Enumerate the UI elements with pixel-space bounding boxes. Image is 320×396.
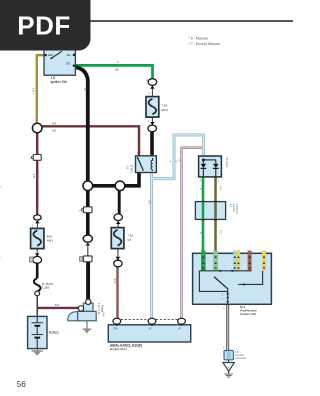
- wire: cyan outline from ST relay pin down to engine ECU: [150, 172, 153, 318]
- wire: yellow from ignition SW AM1 down to junction: [37, 55, 44, 123]
- fusible link FL MAIN: [34, 278, 41, 291]
- connector E8 below AM1 fuse: [36, 249, 38, 254]
- wire: thick black from ignition SW down to junction C1: [76, 67, 88, 183]
- wire: cyan core to engine ECU: [151, 172, 153, 318]
- svg-text:2 B-Y: 2 B-Y: [32, 88, 35, 94]
- wire: cyan outline branch to diode box: [152, 135, 204, 179]
- fuse AM1 40A: [31, 228, 44, 248]
- connector CN3 left column: [29, 155, 41, 161]
- svg-text:ST2: ST2: [148, 200, 151, 205]
- wire: brown from ST fuse connector down to engine ECU STA: [116, 267, 118, 319]
- svg-text:IG2: IG2: [67, 54, 72, 57]
- svg-text:Connector: Connector: [235, 357, 246, 360]
- svg-text:A 1: A 1: [228, 204, 231, 208]
- svg-text:3: 3: [0, 186, 2, 189]
- svg-text:ST1: ST1: [66, 63, 71, 66]
- wire: thick black center column to starter: [86, 262, 90, 299]
- park neutral position SW box: [193, 251, 272, 305]
- wire: cyan core branch to diode box: [152, 135, 204, 179]
- wire: thin black center column: [87, 246, 89, 256]
- fuse EFI 7.5A: [146, 97, 159, 118]
- wire: black from EFI fuse connector to ST relay pin 5: [150, 132, 154, 156]
- svg-text:1: 1: [148, 121, 150, 123]
- wire: dark red from connector down to fuse column: [36, 160, 38, 215]
- svg-text:(W): (W): [52, 130, 56, 133]
- wire: black from AM1 fuse connector to fusible link: [36, 263, 39, 278]
- svg-text:PDF: PDF: [17, 11, 71, 41]
- wire: black center column connector to ellipse: [86, 213, 90, 235]
- junction connector A1: [195, 201, 225, 221]
- svg-text:5 (A): 5 (A): [102, 312, 105, 317]
- svg-text:1: 1: [149, 93, 151, 95]
- connector CN2 center column: [80, 256, 92, 262]
- svg-text:G: G: [199, 188, 201, 190]
- connector E4 below ST fuse: [117, 249, 119, 257]
- connector ellipse E5 center column: [83, 235, 92, 242]
- ground below battery: [36, 349, 38, 351]
- connector ellipse E1 above EFI fuse: [148, 79, 157, 86]
- connector E2 below EFI fuse: [151, 117, 153, 124]
- svg-text:Battery: Battery: [49, 330, 60, 334]
- svg-text:Y-G: Y-G: [219, 186, 221, 190]
- diode box: [199, 156, 222, 177]
- svg-text:B-R: B-R: [55, 304, 59, 307]
- wire: dark red from junction down to connector: [36, 133, 38, 155]
- wire: thick black from ST relay pin 1 to junction C2: [120, 172, 139, 185]
- ground below starter: [86, 321, 88, 329]
- svg-text:2 W: 2 W: [32, 174, 35, 179]
- svg-text:5 1: 5 1: [126, 166, 129, 170]
- connector ellipses at ECU: [113, 318, 121, 324]
- svg-text:1: 1: [0, 257, 2, 260]
- connector ellipse E7 above AM1 fuse: [34, 215, 42, 220]
- svg-text:ST Diode: ST Diode: [225, 158, 228, 169]
- svg-text:2: 2: [32, 225, 34, 227]
- battery: [28, 316, 47, 348]
- arrow into E1: [150, 85, 154, 88]
- ground triangle below J8: [228, 360, 230, 363]
- svg-text:(B): (B): [115, 69, 119, 72]
- svg-text:9: 9: [223, 308, 225, 310]
- dashed link between ECU connectors: [121, 318, 178, 320]
- top rule: [89, 20, 293, 22]
- junction C1: [83, 181, 93, 191]
- svg-text:T 10, S 10: T 10, S 10: [97, 303, 100, 315]
- svg-text:Engine ECU: Engine ECU: [110, 347, 127, 351]
- svg-text:2: 2: [217, 181, 219, 183]
- svg-text:3: 3: [29, 158, 31, 160]
- svg-text:Ignition SW: Ignition SW: [51, 80, 67, 84]
- connector small circle above battery: [35, 291, 40, 296]
- svg-text:(B): (B): [84, 88, 87, 91]
- svg-text:B-R: B-R: [52, 123, 57, 126]
- wire: dark red battery to starter solenoid: [37, 307, 78, 309]
- svg-text:L-R: L-R: [178, 158, 181, 162]
- svg-text:4: 4: [223, 347, 225, 349]
- junction C0 yellow/red: [32, 123, 42, 133]
- junction connector J8: [224, 350, 233, 359]
- svg-text:B-W: B-W: [113, 279, 116, 284]
- wire: black from junction C2 down to ST fuse: [118, 190, 121, 214]
- svg-text:STA: STA: [113, 328, 118, 331]
- svg-text:Y-G: Y-G: [219, 230, 221, 234]
- wire: thick black bus between junctions C1 C2 and ST relay: [88, 184, 125, 188]
- svg-text:5: 5: [176, 161, 178, 163]
- svg-text:* 7 : Except Manual: * 7 : Except Manual: [189, 42, 220, 46]
- svg-text:* 6 : Manual: * 6 : Manual: [189, 37, 208, 41]
- wire: green from ignition SW ST1 to EFI fuse: [75, 65, 152, 79]
- svg-text:4: 4: [200, 181, 202, 183]
- svg-text:Connector: Connector: [235, 204, 238, 215]
- wire: black from junction C1 down center column: [86, 190, 90, 207]
- ignition SW box: [44, 42, 75, 76]
- fuse ST 7.5A: [111, 228, 124, 249]
- wire: gray from park neutral SW to junction connector J8: [226, 304, 229, 350]
- wire: dark red horizontal from junction to ST relay: [42, 126, 139, 156]
- wire: bright green from diode box to park neutral SW: [202, 177, 205, 254]
- svg-text:1J: 1J: [78, 210, 80, 212]
- svg-text:ST RLY: ST RLY: [129, 165, 132, 174]
- svg-text:56: 56: [17, 380, 26, 389]
- svg-text:9: 9: [117, 61, 119, 64]
- connector E3 above ST fuse: [114, 214, 122, 221]
- wire: pink core: [182, 148, 203, 319]
- svg-text:ST: ST: [127, 238, 131, 242]
- svg-text:G: G: [199, 232, 201, 234]
- junction C2: [115, 181, 125, 191]
- svg-text:(EFI): (EFI): [161, 108, 168, 112]
- PDF badge: [0, 0, 91, 51]
- svg-text:4: 4: [170, 161, 172, 163]
- wire: thin black fusible link to battery: [36, 296, 38, 317]
- starter: [68, 299, 96, 321]
- wire: pink from engine ECU up and right to diode box: [182, 148, 203, 319]
- svg-text:AM1: AM1: [48, 54, 54, 57]
- engine ECU box: [108, 324, 190, 342]
- connector CN1 center column: [78, 207, 92, 213]
- wire: olive from diode box to park neutral SW: [214, 177, 217, 254]
- svg-text:AM1: AM1: [47, 239, 54, 243]
- svg-text:Junction: Junction: [232, 204, 235, 213]
- svg-text:Position SW: Position SW: [240, 312, 256, 316]
- ST relay box: [136, 154, 157, 173]
- svg-text:1.25B: 1.25B: [42, 286, 49, 290]
